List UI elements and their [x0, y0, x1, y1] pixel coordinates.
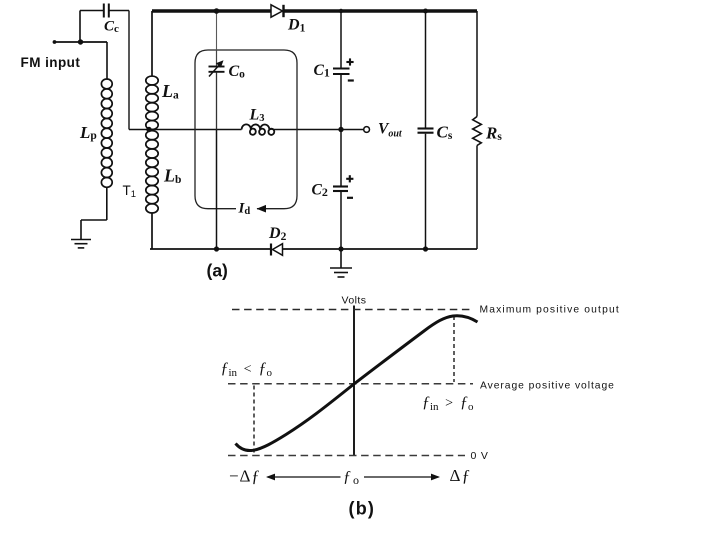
svg-text:(a): (a) — [207, 261, 228, 281]
svg-text:ƒo: ƒo — [343, 469, 359, 488]
svg-text:L3: L3 — [249, 107, 265, 125]
svg-text:Lb: Lb — [163, 166, 181, 187]
svg-text:Vout: Vout — [378, 121, 403, 140]
svg-text:0 V: 0 V — [471, 450, 489, 462]
svg-text:Id: Id — [238, 201, 251, 218]
svg-text:Average positive voltage: Average positive voltage — [480, 380, 615, 391]
svg-text:T1: T1 — [123, 183, 137, 200]
svg-text:Cs: Cs — [437, 123, 453, 143]
svg-text:D2: D2 — [268, 225, 287, 243]
svg-text:FM input: FM input — [21, 55, 81, 70]
svg-text:Δƒ: Δƒ — [450, 466, 472, 485]
svg-text:La: La — [161, 81, 179, 102]
svg-text:Maximum positive output: Maximum positive output — [480, 305, 620, 316]
svg-text:−Δƒ: −Δƒ — [229, 466, 261, 485]
svg-text:C2: C2 — [312, 182, 328, 200]
svg-text:ƒin<ƒo: ƒin<ƒo — [221, 360, 273, 379]
svg-text:Co: Co — [229, 63, 246, 81]
svg-text:Rs: Rs — [485, 124, 502, 144]
svg-text:D1: D1 — [287, 17, 306, 35]
svg-text:Volts: Volts — [341, 295, 366, 307]
svg-text:ƒin>ƒo: ƒin>ƒo — [422, 394, 474, 413]
svg-text:(b): (b) — [349, 499, 376, 519]
svg-text:Lp: Lp — [79, 123, 97, 142]
svg-text:Cc: Cc — [104, 19, 119, 36]
svg-text:C1: C1 — [314, 62, 330, 80]
